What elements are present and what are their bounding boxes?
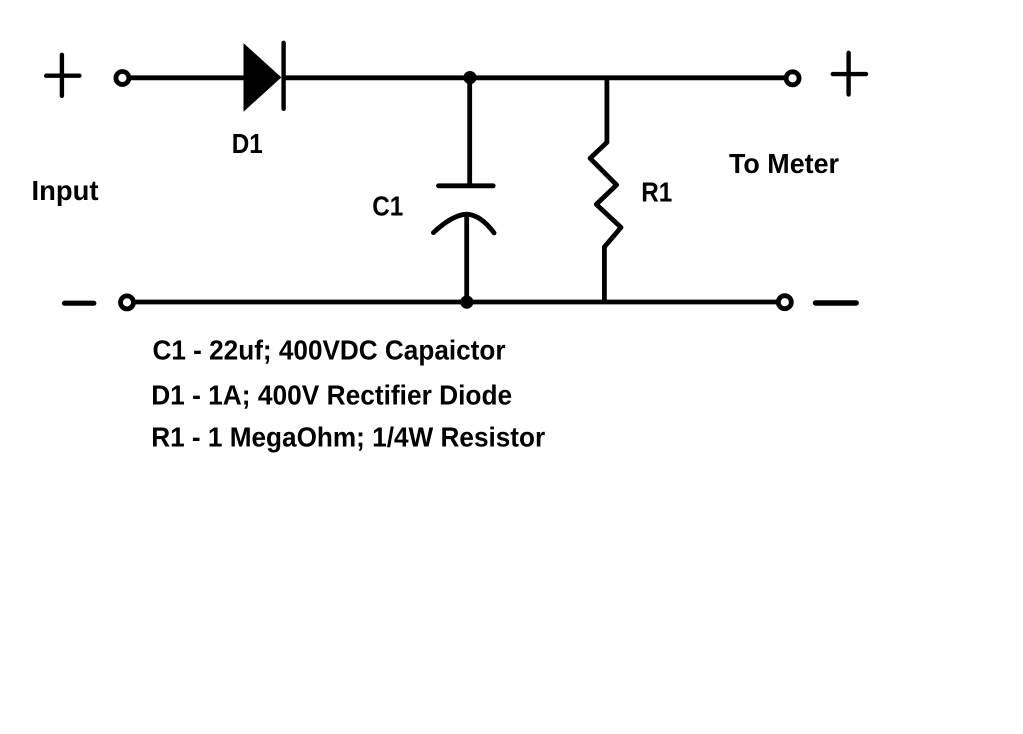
terminal input -	[121, 296, 134, 309]
wire bottom: input terminal to output terminal	[136, 300, 777, 305]
diode D1	[244, 43, 284, 111]
wire top: diode cathode to output terminal	[284, 75, 785, 80]
node junction bottom (C1 tap)	[460, 296, 473, 309]
terminal output +	[786, 72, 799, 85]
svg-text:Input: Input	[32, 175, 99, 206]
svg-text:D1: D1	[232, 128, 263, 159]
plus symbol (output +)	[833, 53, 866, 95]
node junction top (C1 tap)	[463, 71, 476, 84]
terminal output -	[778, 296, 791, 309]
svg-text:To Meter: To Meter	[729, 148, 839, 179]
plus symbol (input +)	[46, 55, 79, 96]
minus symbol (output -)	[816, 300, 857, 305]
resistor R1	[590, 78, 621, 302]
capacitor C1	[433, 76, 494, 303]
svg-text:C1: C1	[372, 190, 403, 221]
svg-text:R1: R1	[641, 177, 672, 208]
minus symbol (input -)	[65, 301, 94, 306]
terminal input +	[116, 72, 129, 85]
wire top: input terminal to diode anode	[131, 75, 246, 80]
svg-text:D1 - 1A; 400V Rectifier Diode: D1 - 1A; 400V Rectifier Diode	[151, 380, 512, 411]
svg-text:R1 - 1 MegaOhm; 1/4W Resistor: R1 - 1 MegaOhm; 1/4W Resistor	[151, 422, 545, 453]
svg-text:C1 - 22uf; 400VDC Capaictor: C1 - 22uf; 400VDC Capaictor	[153, 334, 506, 365]
